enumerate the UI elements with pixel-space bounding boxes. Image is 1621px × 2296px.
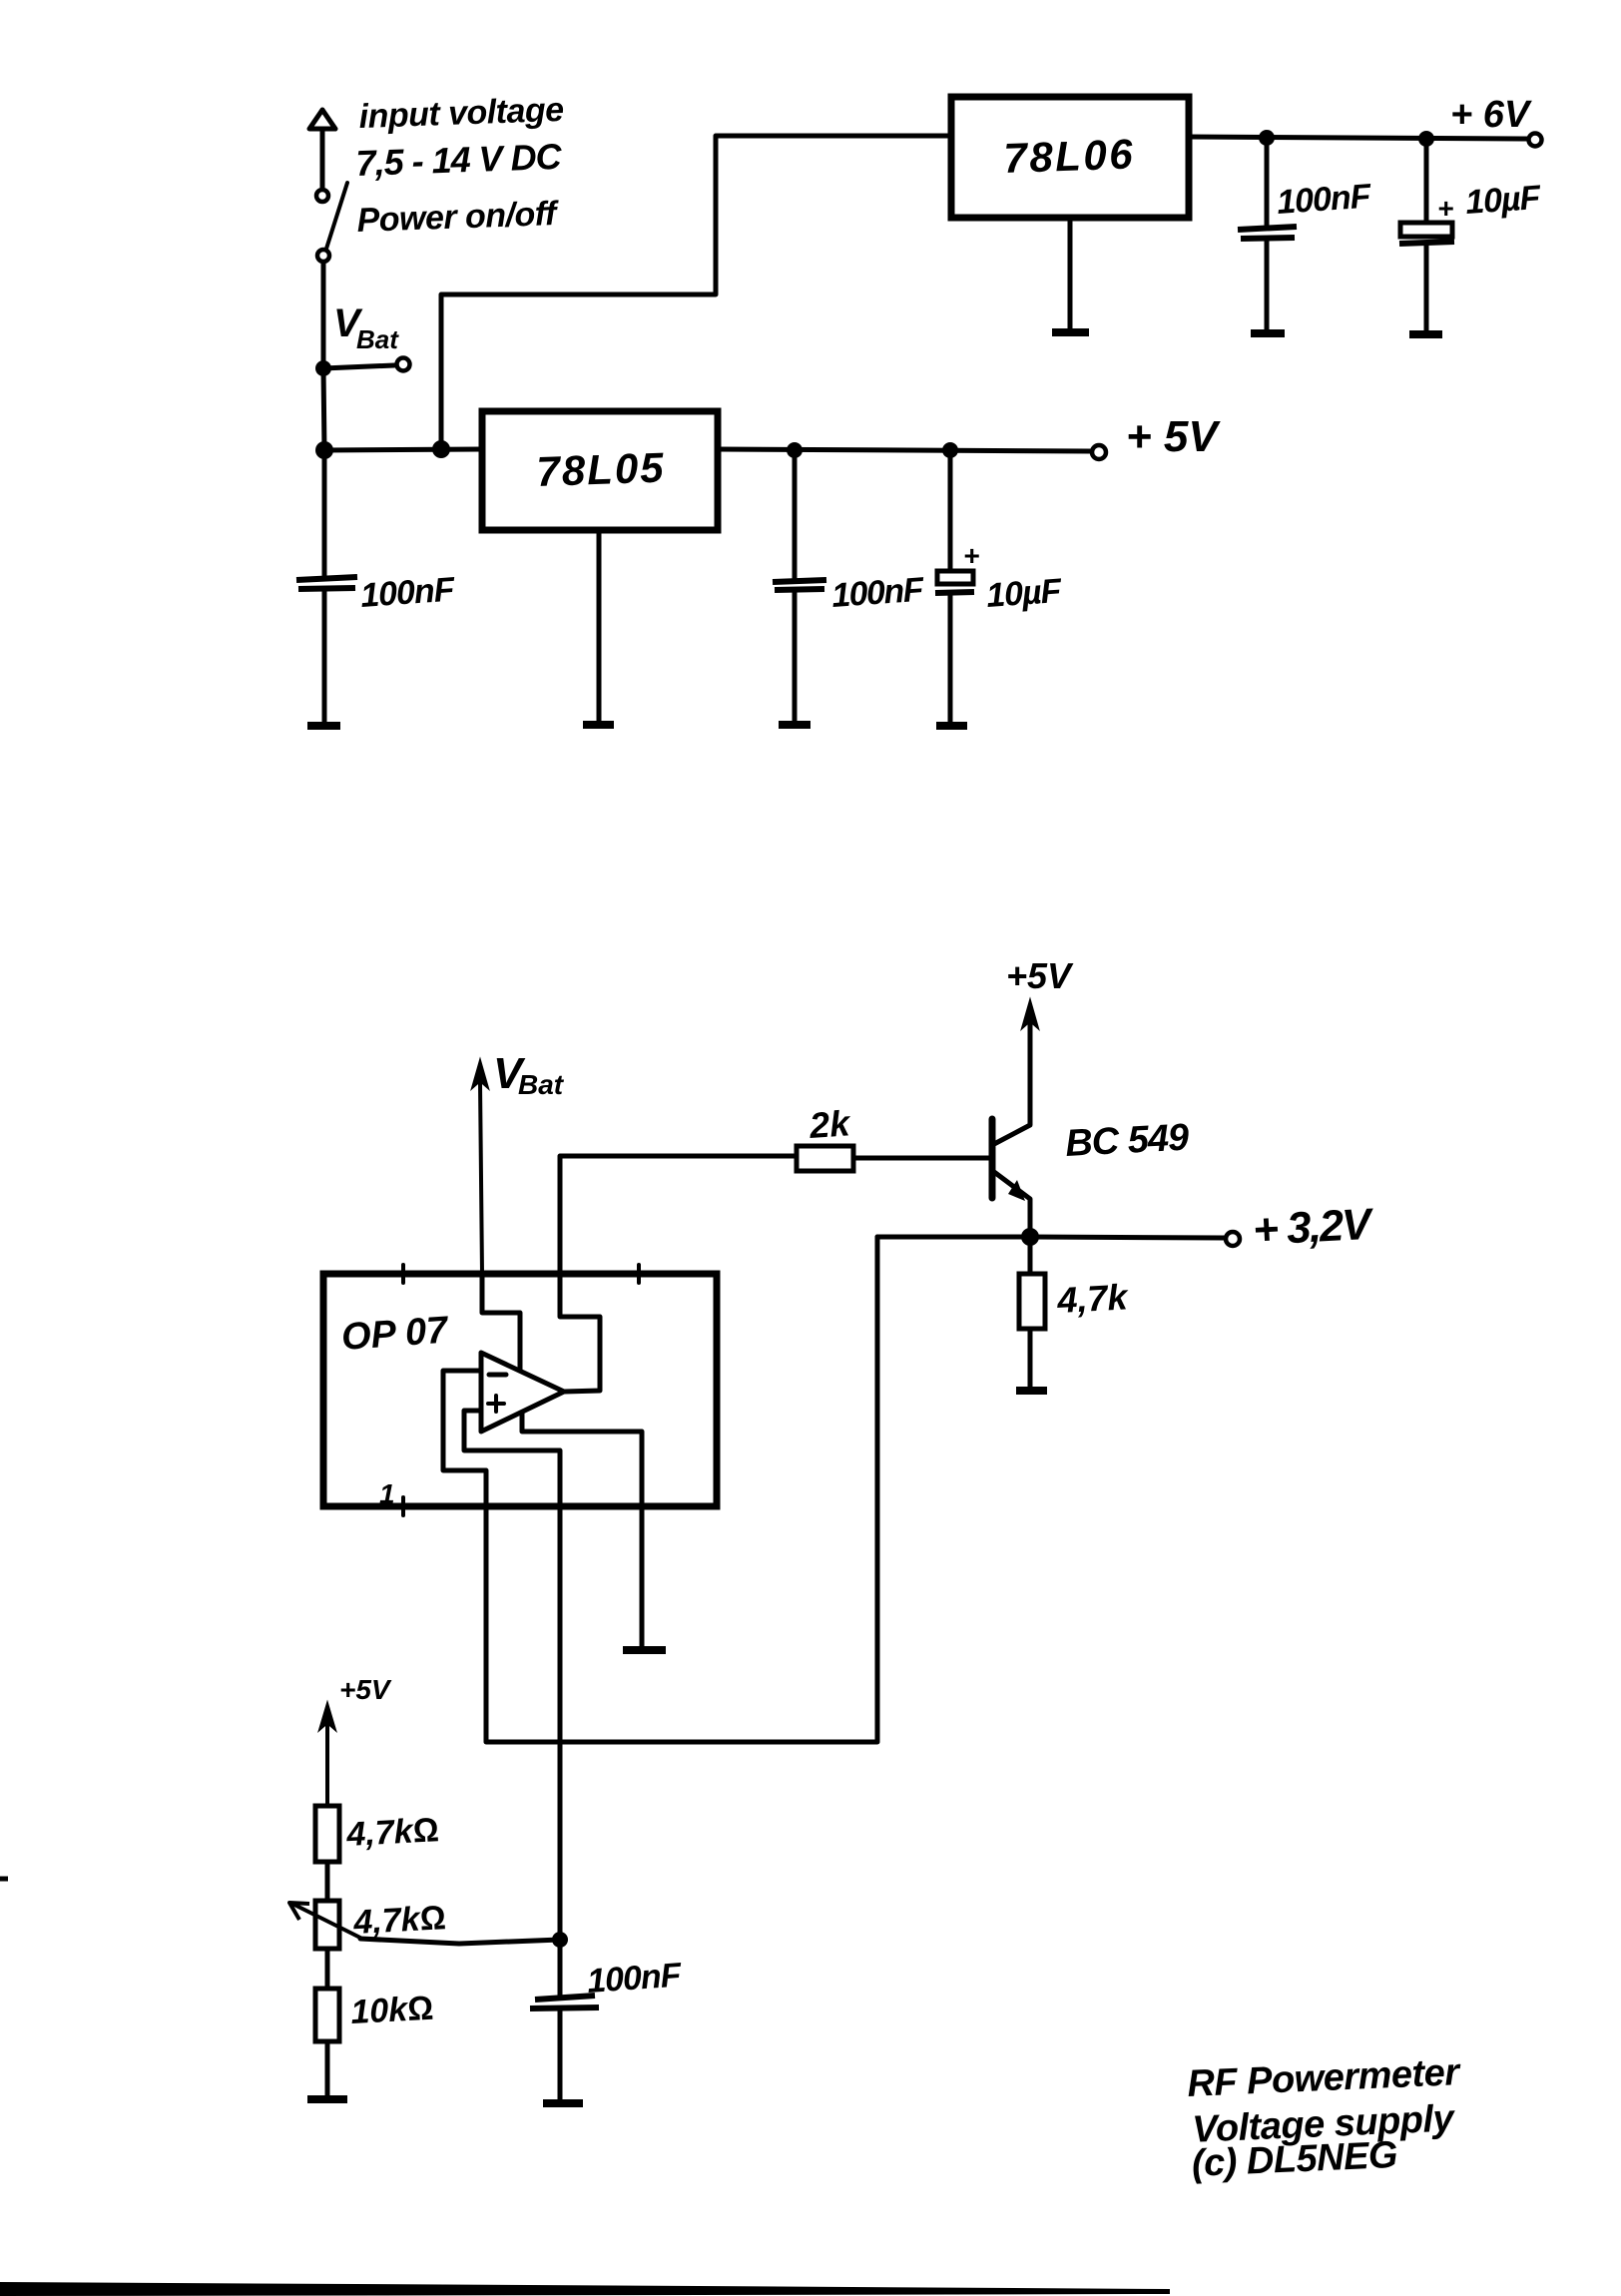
+5V arrow collector — [1022, 1000, 1038, 1028]
ground 78L05 — [583, 721, 614, 729]
label 4,7k — [1055, 1276, 1130, 1321]
svg-text:Bat: Bat — [518, 1069, 565, 1100]
label +5V — [1126, 412, 1221, 461]
wire R3 to pot — [325, 1862, 330, 1901]
op-amp U3 OP 07 package box — [323, 1265, 717, 1515]
label BC 549 — [1064, 1117, 1190, 1165]
resistor R2 4,7k emitter — [1019, 1237, 1045, 1388]
svg-text:78L06: 78L06 — [1003, 130, 1136, 182]
svg-text:+ 5V: + 5V — [1126, 412, 1221, 461]
svg-text:100nF: 100nF — [1276, 177, 1373, 222]
bottom scan bar — [0, 2282, 1170, 2296]
wire 78L05 gnd pin — [597, 530, 602, 722]
svg-text:Bat: Bat — [356, 324, 399, 354]
node 100nF at 5V — [787, 442, 803, 458]
capacitor C6 100nF reference — [530, 1940, 599, 2100]
ground C3 — [1409, 330, 1442, 338]
regulator U2 78L05 — [482, 411, 718, 530]
ground R2 — [1016, 1387, 1047, 1395]
ground 78L06 — [1052, 328, 1089, 336]
label +5V divider — [339, 1674, 392, 1705]
wire output pin to 2k — [560, 1156, 797, 1392]
resistor R3 4,7kOhm — [315, 1806, 339, 1862]
svg-text:4,7k: 4,7k — [1055, 1276, 1130, 1321]
ground C5 — [936, 722, 967, 730]
op-amp triangle — [481, 1353, 564, 1432]
capacitor C5 10uF at 5V polarized — [935, 450, 979, 723]
label C3 10uF — [1464, 179, 1543, 222]
pin 1 label — [379, 1478, 395, 1509]
label C1 100nF — [359, 570, 457, 615]
label C5 10uF — [985, 572, 1064, 615]
wire emitter to output terminal — [877, 1237, 1224, 1238]
capacitor C2 100nF at 6V — [1238, 138, 1297, 330]
node 10uF at 6V — [1418, 131, 1434, 147]
switch S1 Power on/off — [316, 183, 347, 262]
terminal circle +3,2V — [1226, 1232, 1240, 1246]
label VBat lower — [493, 1049, 565, 1100]
svg-text:+: + — [1437, 193, 1453, 224]
svg-text:Power on/off: Power on/off — [356, 195, 561, 240]
potentiometer R4 4,7kOhm — [289, 1901, 360, 1949]
label +5V collector — [1006, 955, 1074, 996]
wire V- pin to ground — [522, 1414, 642, 1647]
resistor R5 10kOhm — [315, 1989, 339, 2041]
wire non-inverting input to divider — [464, 1411, 560, 1938]
wire pot wiper to node — [360, 1939, 560, 1944]
label VBat — [333, 301, 399, 354]
svg-text:78L05: 78L05 — [536, 444, 667, 495]
svg-text:(c) DL5NEG: (c) DL5NEG — [1191, 2134, 1398, 2185]
terminal circle +6V — [1529, 134, 1542, 147]
node emitter — [1021, 1228, 1039, 1246]
svg-text:+ 3,2V: + 3,2V — [1252, 1200, 1375, 1255]
title text RF Powermeter — [1187, 2051, 1466, 2185]
svg-text:1: 1 — [379, 1478, 395, 1509]
terminal circle +5V — [1092, 445, 1106, 459]
svg-text:+5V: +5V — [339, 1674, 392, 1705]
wire branch up to 78L06 input — [441, 136, 951, 449]
VBat arrow lower section — [472, 1060, 488, 1274]
svg-text:100nF: 100nF — [359, 570, 457, 615]
terminal circle VBat — [397, 358, 410, 371]
svg-text:RF Powermeter: RF Powermeter — [1187, 2051, 1463, 2105]
label C6 100nF — [586, 1956, 684, 2001]
ground C2 — [1251, 329, 1285, 337]
svg-text:10kΩ: 10kΩ — [349, 1990, 434, 2031]
wire 78L06 output — [1189, 137, 1527, 139]
label 2k — [808, 1102, 853, 1146]
node wiper — [552, 1932, 568, 1948]
svg-text:+5V: +5V — [1006, 955, 1074, 996]
capacitor C1 100nF input — [296, 450, 357, 723]
wire VBat tap — [323, 365, 394, 368]
svg-text:BC 549: BC 549 — [1064, 1117, 1190, 1165]
wire VBat down to main node — [323, 368, 324, 450]
label C2 100nF — [1276, 177, 1373, 222]
+5V arrow divider — [319, 1703, 335, 1806]
svg-text:2k: 2k — [808, 1102, 853, 1146]
label Power on/off — [356, 195, 561, 240]
node VBat tap — [315, 360, 331, 376]
wire R5 to ground — [325, 2041, 330, 2096]
ground C6 — [543, 2099, 583, 2107]
left margin mark — [0, 1877, 8, 1882]
node branch to 78L06 — [432, 440, 450, 458]
ground divider — [307, 2095, 347, 2103]
node 100nF at 6V — [1259, 130, 1275, 146]
svg-text:input voltage: input voltage — [358, 91, 564, 136]
wire 78L06 gnd pin — [1068, 218, 1073, 329]
svg-text:100nF: 100nF — [586, 1956, 684, 2001]
node main input — [315, 441, 333, 459]
svg-text:+: + — [963, 540, 979, 571]
regulator U1 78L06 — [951, 97, 1189, 218]
wire V+ pin from VBat — [482, 1274, 520, 1370]
svg-text:4,7kΩ: 4,7kΩ — [351, 1899, 446, 1942]
svg-text:7,5 - 14 V DC: 7,5 - 14 V DC — [355, 136, 563, 184]
ground C4 — [779, 721, 810, 729]
wire 78L05 output — [718, 449, 1090, 451]
label R3 4,7kOhm — [344, 1811, 439, 1854]
transistor Q1 BC549 — [992, 1010, 1030, 1237]
wire main node to 78L05 input — [324, 449, 482, 450]
ground op-amp — [623, 1646, 666, 1654]
label R4 4,7kOhm — [351, 1899, 446, 1942]
wire switch to node VBat — [321, 263, 326, 367]
svg-text:4,7kΩ: 4,7kΩ — [344, 1811, 439, 1854]
svg-text:OP 07: OP 07 — [340, 1310, 451, 1359]
node 10uF at 5V — [942, 442, 958, 458]
label OP 07 — [340, 1310, 451, 1359]
svg-text:10µF: 10µF — [985, 572, 1064, 615]
label +6V — [1450, 94, 1532, 136]
wire inverting input feedback — [443, 1237, 877, 1742]
svg-text:100nF: 100nF — [830, 571, 926, 615]
capacitor C4 100nF at 5V — [773, 450, 826, 722]
capacitor C3 10uF at 6V polarized — [1399, 139, 1454, 331]
label input voltage 7,5-14 V DC — [355, 91, 564, 184]
resistor R1 2k — [797, 1146, 853, 1171]
wire pot to R5 — [325, 1949, 330, 1989]
label R5 10kOhm — [349, 1990, 434, 2031]
wire 2k to base — [853, 1156, 992, 1161]
input terminal arrow — [309, 110, 335, 129]
label C4 100nF — [830, 571, 926, 615]
svg-text:10µF: 10µF — [1464, 179, 1543, 222]
wire arrow to switch — [320, 131, 325, 188]
label +3,2V — [1252, 1200, 1375, 1255]
ground C1 — [307, 722, 340, 730]
svg-text:+ 6V: + 6V — [1450, 94, 1532, 136]
